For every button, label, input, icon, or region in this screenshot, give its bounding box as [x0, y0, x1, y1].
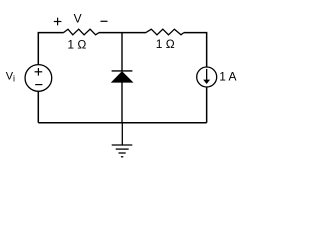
minus sign inside Vi	[35, 84, 42, 86]
plus sign inside Vi	[35, 68, 43, 76]
label plus (V polarity)	[54, 18, 62, 26]
ground stub wire	[121, 123, 123, 145]
resistor R2 (right, 1 ohm)	[146, 29, 184, 35]
ground line 1	[112, 144, 133, 146]
resistor R1 (left, 1 ohm)	[64, 29, 100, 35]
wire bottom	[38, 122, 206, 124]
voltage source Vi circle	[25, 65, 52, 92]
ground line 4	[121, 156, 123, 158]
svg-text:1 Ω: 1 Ω	[67, 37, 86, 51]
ground line 3	[119, 152, 126, 154]
wire top-right segment	[184, 33, 207, 67]
wire left-bottom segment	[37, 91, 39, 122]
label minus (V polarity)	[101, 20, 108, 22]
current source circle	[197, 67, 217, 87]
wire top-left segment	[38, 33, 63, 65]
svg-text:V: V	[74, 12, 82, 26]
current source arrow (down)	[206, 69, 208, 80]
wire right-bottom segment	[206, 87, 208, 122]
diode D1 cathode bar	[112, 70, 133, 72]
wire top-middle segment	[99, 32, 146, 34]
svg-text:i: i	[13, 73, 15, 83]
svg-text:1 A: 1 A	[219, 70, 236, 84]
ground line 2	[116, 148, 129, 150]
wire diode branch bottom	[121, 82, 123, 122]
wire diode branch top	[121, 33, 123, 71]
diode D1 triangle (anode, pointing up)	[112, 72, 133, 83]
svg-text:1 Ω: 1 Ω	[156, 37, 175, 51]
